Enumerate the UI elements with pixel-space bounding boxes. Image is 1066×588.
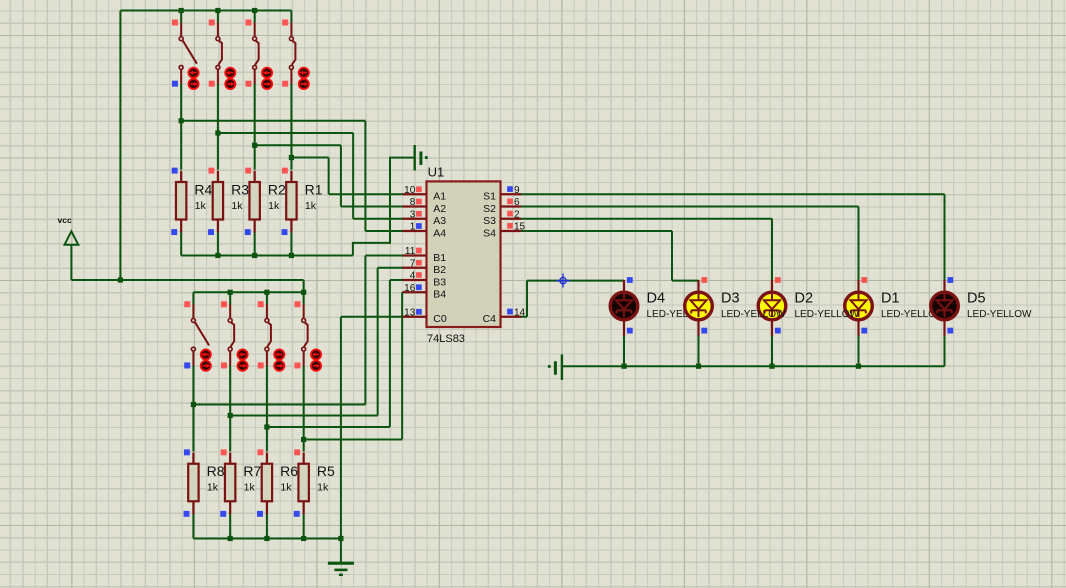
svg-text:74LS83: 74LS83 xyxy=(427,333,465,345)
svg-text:1k: 1k xyxy=(268,200,280,212)
svg-text:S4: S4 xyxy=(483,227,496,239)
svg-text:R1: R1 xyxy=(305,181,323,197)
svg-text:A2: A2 xyxy=(433,203,446,215)
svg-text:13: 13 xyxy=(404,307,416,318)
svg-text:R7: R7 xyxy=(243,463,261,479)
svg-text:1k: 1k xyxy=(231,200,243,212)
svg-text:S3: S3 xyxy=(483,215,496,227)
svg-text:vcc: vcc xyxy=(58,215,72,225)
svg-text:16: 16 xyxy=(404,283,416,294)
svg-text:2: 2 xyxy=(514,209,520,220)
svg-text:R5: R5 xyxy=(317,463,335,479)
svg-text:D1: D1 xyxy=(881,291,900,307)
svg-text:R2: R2 xyxy=(268,181,286,197)
svg-text:1k: 1k xyxy=(305,200,317,212)
svg-text:1: 1 xyxy=(410,222,416,233)
svg-text:6: 6 xyxy=(514,197,520,208)
svg-text:1k: 1k xyxy=(317,482,329,494)
svg-text:B1: B1 xyxy=(433,252,446,264)
svg-text:B2: B2 xyxy=(433,264,446,276)
svg-text:A3: A3 xyxy=(433,215,446,227)
svg-text:U1: U1 xyxy=(428,165,445,180)
svg-text:A1: A1 xyxy=(433,191,446,203)
svg-text:D4: D4 xyxy=(647,291,666,307)
svg-text:D2: D2 xyxy=(795,291,814,307)
svg-text:9: 9 xyxy=(514,185,520,196)
svg-text:D3: D3 xyxy=(721,291,740,307)
svg-text:C0: C0 xyxy=(433,313,447,325)
svg-text:B3: B3 xyxy=(433,276,446,288)
svg-text:S1: S1 xyxy=(483,191,496,203)
svg-text:R3: R3 xyxy=(231,181,249,197)
svg-text:4: 4 xyxy=(410,271,416,282)
svg-text:14: 14 xyxy=(514,307,526,318)
svg-text:10: 10 xyxy=(404,185,416,196)
svg-text:R4: R4 xyxy=(194,181,212,197)
svg-text:1k: 1k xyxy=(207,482,219,494)
svg-text:1k: 1k xyxy=(244,482,256,494)
svg-text:LED-YELLOW: LED-YELLOW xyxy=(721,309,786,320)
svg-text:8: 8 xyxy=(410,197,416,208)
svg-text:11: 11 xyxy=(405,246,416,257)
svg-text:S2: S2 xyxy=(483,203,496,215)
svg-text:R8: R8 xyxy=(207,463,225,479)
svg-text:15: 15 xyxy=(514,222,526,233)
svg-text:1k: 1k xyxy=(195,200,207,212)
svg-text:1k: 1k xyxy=(280,482,292,494)
svg-text:LED-YELLOW: LED-YELLOW xyxy=(967,309,1032,320)
svg-text:LED-YELLOW: LED-YELLOW xyxy=(795,309,860,320)
svg-text:7: 7 xyxy=(410,258,416,269)
svg-text:B4: B4 xyxy=(433,289,446,301)
svg-text:3: 3 xyxy=(410,209,416,220)
svg-text:A4: A4 xyxy=(433,227,446,239)
svg-text:D5: D5 xyxy=(967,291,986,307)
svg-text:R6: R6 xyxy=(280,463,298,479)
svg-text:C4: C4 xyxy=(483,313,497,325)
